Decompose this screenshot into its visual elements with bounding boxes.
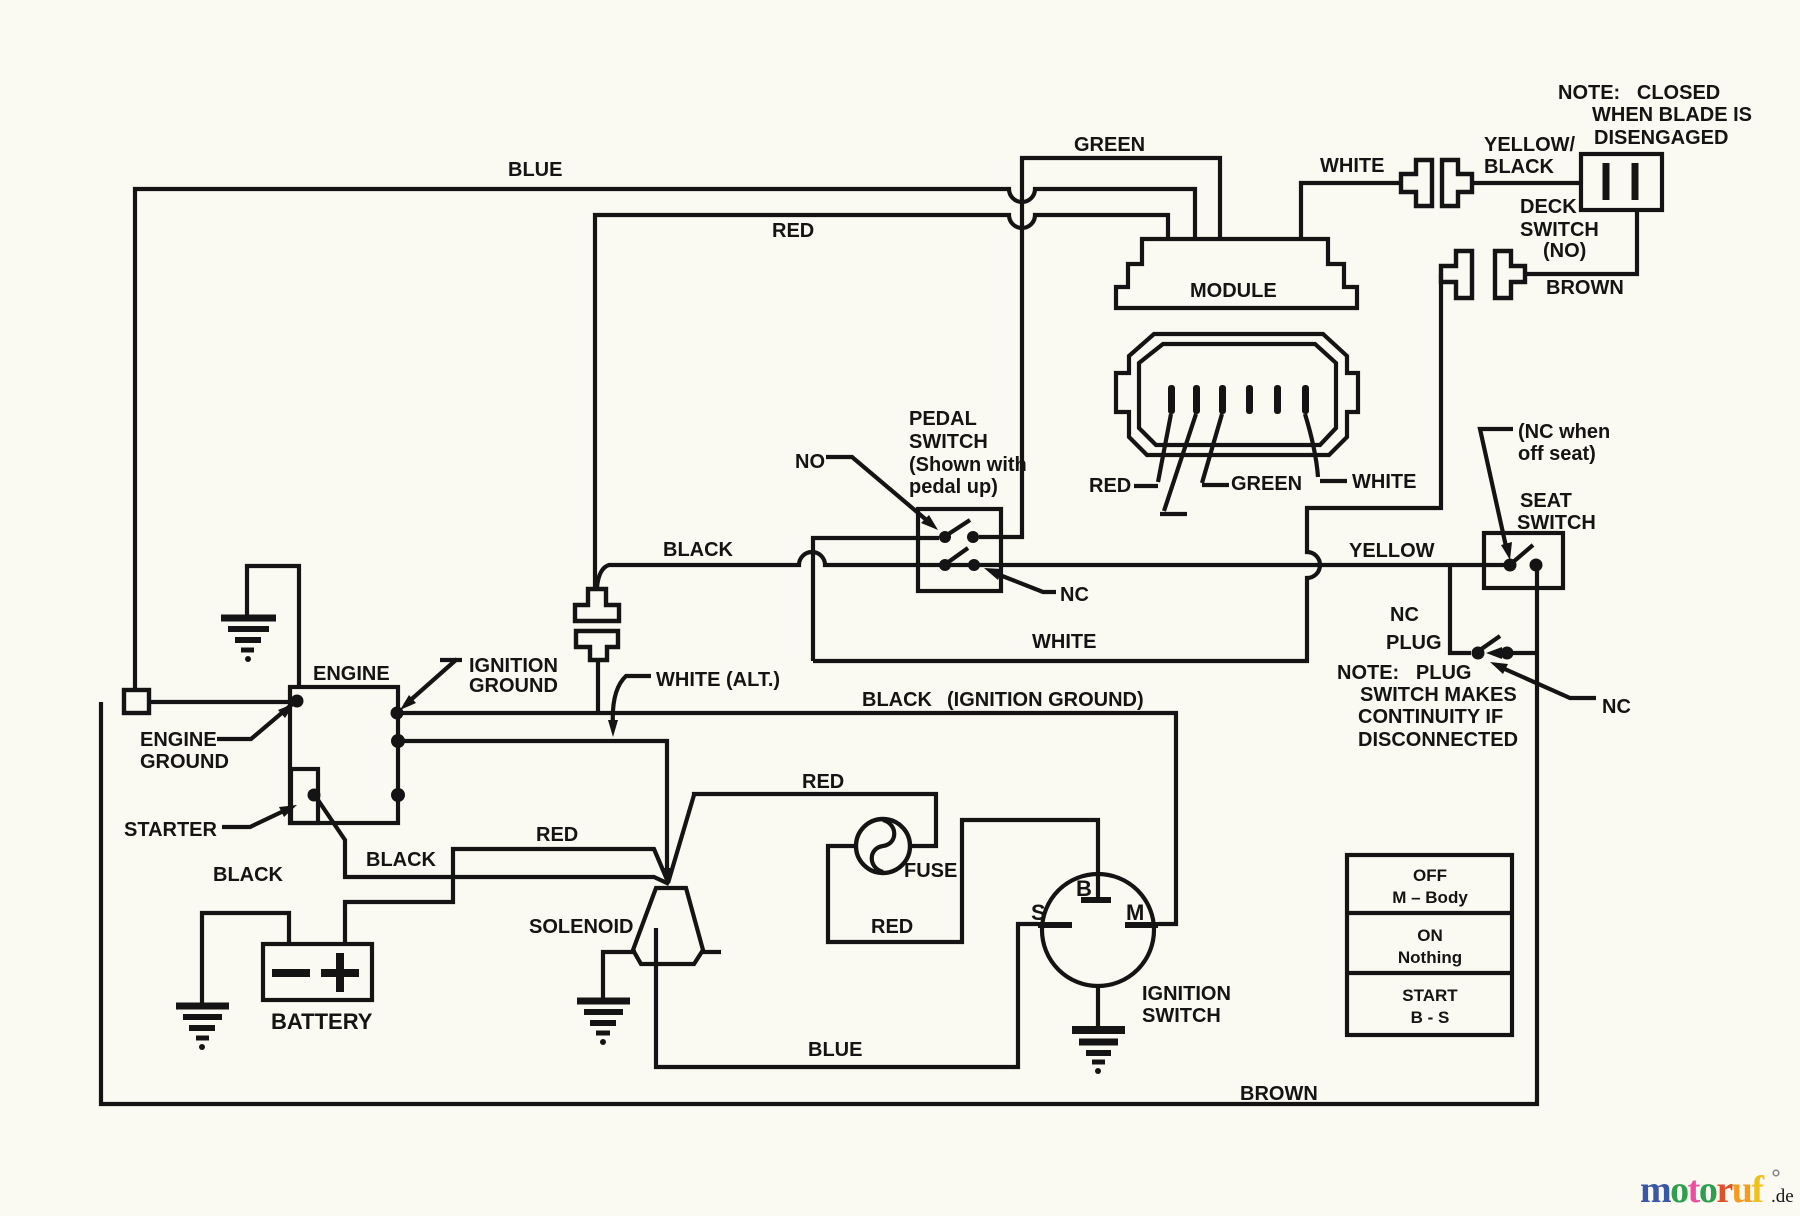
label STARTER with leader arrow <box>124 805 297 841</box>
svg-text:RED: RED <box>802 771 844 793</box>
svg-text:ENGINE: ENGINE <box>140 729 217 751</box>
wire ignition switch to ground <box>1096 986 1100 1026</box>
svg-text:SWITCH: SWITCH <box>1520 219 1599 241</box>
svg-text:WHEN BLADE IS: WHEN BLADE IS <box>1592 104 1752 126</box>
svg-text:.de: .de <box>1771 1186 1794 1207</box>
label WHITE (ALT.) with leader arrow <box>608 669 780 737</box>
svg-text:GROUND: GROUND <box>140 751 229 773</box>
solenoid left terminal to ground <box>603 952 636 998</box>
fuse F1 <box>856 819 910 873</box>
svg-text:YELLOW/: YELLOW/ <box>1484 134 1576 156</box>
svg-text:SOLENOID: SOLENOID <box>529 916 633 938</box>
svg-text:PEDAL: PEDAL <box>909 408 977 430</box>
svg-text:BLUE: BLUE <box>508 159 562 181</box>
wire NC plug branch (from yellow wire) <box>1450 565 1471 653</box>
connector plug (white harness side) <box>1441 251 1472 298</box>
battery BT1 <box>263 944 372 1000</box>
connector pins 1-6 <box>1168 385 1309 414</box>
label SEAT SWITCH <box>1517 490 1596 534</box>
wire WHITE ALT (engine alternator to solenoid) <box>398 741 667 880</box>
pedal switch S2 <box>918 509 1001 591</box>
svg-text:BATTERY: BATTERY <box>271 1009 373 1034</box>
seat switch contacts and arm <box>1504 545 1543 572</box>
svg-text:NOTE: PLUG: NOTE: PLUG <box>1337 662 1471 684</box>
label NOTE: PLUG SWITCH MAKES CONTINUITY IF DISCONNECTED <box>1337 662 1518 751</box>
label NOTE: CLOSED WHEN BLADE IS DISENGAGED <box>1558 82 1752 149</box>
engine block E1 <box>290 687 398 823</box>
svg-text:SWITCH: SWITCH <box>1142 1005 1221 1027</box>
wire WHITE (deck connector to pedal switch, hops yellow wire) <box>813 274 1441 661</box>
svg-text:SWITCH: SWITCH <box>909 431 988 453</box>
leader pin 2 (stub) <box>1160 414 1196 514</box>
svg-text:BLACK: BLACK <box>1484 156 1555 178</box>
wire BROWN (chassis loop: left border, bottom border, right border up to seat switch) <box>101 565 1537 1104</box>
connector plug (white wire side) <box>1401 160 1432 206</box>
svg-text:RED: RED <box>772 220 814 242</box>
svg-text:BLUE: BLUE <box>808 1039 862 1061</box>
svg-text:NC: NC <box>1060 584 1089 606</box>
ground (solenoid) <box>577 1001 630 1045</box>
svg-text:S: S <box>1031 900 1046 925</box>
connector plug (deck brown side) <box>1495 251 1525 298</box>
svg-text:SWITCH: SWITCH <box>1517 512 1596 534</box>
label NC (pedal) with leader arrow <box>984 568 1089 606</box>
wire BLACK (battery negative to chassis ground) <box>202 913 289 1003</box>
svg-text:RED: RED <box>536 824 578 846</box>
svg-text:pedal up): pedal up) <box>909 476 998 498</box>
ignition switch terminal M <box>1125 900 1158 925</box>
node starter terminal <box>308 789 321 802</box>
node ignition ground terminal <box>391 707 404 720</box>
svg-text:GREEN: GREEN <box>1074 134 1145 156</box>
wire BROWN (deck switch to connector) <box>1525 210 1637 274</box>
NC plug contacts, arm and mate arrow <box>1472 636 1514 660</box>
svg-text:RED: RED <box>871 916 913 938</box>
label (NC when off seat) with leader arrow <box>1480 421 1610 560</box>
ground (engine) <box>221 618 276 662</box>
svg-text:BLACK: BLACK <box>213 864 284 886</box>
wire YELLOW/BLACK (connector to deck switch) <box>1472 181 1581 185</box>
svg-text:(IGNITION GROUND): (IGNITION GROUND) <box>947 689 1144 711</box>
svg-text:WHITE: WHITE <box>1352 471 1416 493</box>
label NC PLUG <box>1386 604 1442 654</box>
svg-text:DECK: DECK <box>1520 196 1577 218</box>
wire BLUE (solenoid plunger to ignition switch S) <box>656 924 1038 1067</box>
wire inline connector to ignition ground wire <box>596 660 600 713</box>
svg-text:DISENGAGED: DISENGAGED <box>1594 127 1728 149</box>
deck switch S3 <box>1581 154 1662 210</box>
label IGNITION GROUND with leader arrow <box>400 655 558 710</box>
svg-text:PLUG: PLUG <box>1386 632 1442 654</box>
node starter feed terminal <box>391 788 405 802</box>
arrow into solenoid apex <box>662 868 674 886</box>
ignition switch position table <box>1347 855 1512 1035</box>
svg-text:MODULE: MODULE <box>1190 280 1277 302</box>
solenoid K1 <box>633 888 703 964</box>
svg-text:Nothing: Nothing <box>1398 948 1462 967</box>
connector plug (yellow/black wire side) <box>1442 160 1472 206</box>
svg-text:M – Body: M – Body <box>1392 888 1468 907</box>
svg-text:STARTER: STARTER <box>124 819 218 841</box>
wire BLACK IGNITION GROUND (engine to ignition switch M) <box>397 713 1176 924</box>
battery plus symbol <box>321 953 359 992</box>
wire WHITE (module to deck switch connector) <box>1301 183 1401 241</box>
inline connector upper half (to black/red wires) <box>575 589 619 621</box>
wire BLUE (engine-ground junction to module, hops pedal green wire at x=1022) <box>135 189 1195 691</box>
svg-text:B - S: B - S <box>1411 1008 1450 1027</box>
wire RED (battery positive to solenoid) <box>345 849 668 944</box>
label WHITE (pin 6) with leader <box>1305 414 1416 493</box>
node alternator terminal <box>391 734 405 748</box>
node engine ground terminal <box>291 695 304 708</box>
svg-text:WHITE: WHITE <box>1032 631 1096 653</box>
svg-text:(NO): (NO) <box>1543 240 1586 262</box>
wire engine ground (junction square to engine block) <box>149 700 292 704</box>
wire BLACK (starter to solenoid) <box>316 797 669 884</box>
svg-text:WHITE (ALT.): WHITE (ALT.) <box>656 669 780 691</box>
module connector J1 (outer shell) <box>1116 334 1358 455</box>
svg-text:START: START <box>1402 986 1458 1005</box>
svg-text:(NC when: (NC when <box>1518 421 1610 443</box>
label NC (plug) with leader arrow <box>1490 662 1631 718</box>
svg-text:SEAT: SEAT <box>1520 490 1572 512</box>
starter (sub-block inside engine) <box>291 769 318 823</box>
svg-text:NO: NO <box>795 451 825 473</box>
svg-text:BLACK: BLACK <box>366 849 437 871</box>
svg-text:SWITCH MAKES: SWITCH MAKES <box>1360 684 1517 706</box>
wire pedal NO feed (white wire riser to NO contact) <box>813 538 939 661</box>
label PEDAL SWITCH (Shown with pedal up) <box>909 408 1027 498</box>
label RED (pin 1) with leader <box>1089 414 1171 497</box>
svg-text:RED: RED <box>1089 475 1131 497</box>
wire RED (inline connector to module, hops green at x=1022) <box>595 215 1168 587</box>
svg-text:BLACK: BLACK <box>862 689 933 711</box>
pedal switch NO contacts and arm <box>939 520 979 543</box>
wire RED (fuse to ignition switch B) <box>828 820 1098 942</box>
svg-text:CONTINUITY IF: CONTINUITY IF <box>1358 706 1503 728</box>
ignition switch terminal B <box>1076 876 1111 901</box>
svg-text:BLACK: BLACK <box>663 539 734 561</box>
label ENGINE GROUND with leader arrow <box>140 703 295 773</box>
motoruf.de watermark logo <box>1640 1169 1794 1211</box>
label NO with leader arrow <box>795 451 938 530</box>
svg-text:IGNITION: IGNITION <box>1142 983 1231 1005</box>
svg-text:FUSE: FUSE <box>904 860 957 882</box>
seat switch S4 <box>1484 533 1563 588</box>
ignition switch S1 <box>1042 874 1154 986</box>
svg-text:(Shown with: (Shown with <box>909 454 1027 476</box>
svg-text:OFF: OFF <box>1413 866 1447 885</box>
svg-text:WHITE: WHITE <box>1320 155 1384 177</box>
svg-text:BROWN: BROWN <box>1546 277 1624 299</box>
label YELLOW/ BLACK <box>1484 134 1576 178</box>
svg-text:NC: NC <box>1390 604 1419 626</box>
svg-text:GROUND: GROUND <box>469 675 558 697</box>
svg-text:BROWN: BROWN <box>1240 1083 1318 1105</box>
wire BLACK (inline connector to pedal switch NC, hops white at x=812) <box>597 552 1504 587</box>
svg-text:YELLOW: YELLOW <box>1349 540 1435 562</box>
connector square (engine ground junction terminal) <box>124 690 149 713</box>
svg-text:ENGINE: ENGINE <box>313 663 390 685</box>
wire NC plug to brown loop <box>1513 651 1537 655</box>
wire GREEN (module to pedal switch NO) <box>979 158 1220 537</box>
svg-text:motoruf: motoruf <box>1640 1169 1765 1211</box>
pedal switch NC contacts and arm <box>939 548 980 571</box>
svg-text:DISCONNECTED: DISCONNECTED <box>1358 729 1518 751</box>
module connector J1 (inner shell) <box>1139 344 1336 445</box>
inline connector lower half (to ignition ground wire) <box>576 631 618 660</box>
svg-text:M: M <box>1126 900 1144 925</box>
svg-text:NC: NC <box>1602 696 1631 718</box>
label GREEN (pin 3) with leader <box>1202 414 1302 495</box>
svg-text:off seat): off seat) <box>1518 443 1596 465</box>
svg-text:IGNITION: IGNITION <box>469 655 558 677</box>
ground (ignition switch) <box>1072 1030 1125 1074</box>
svg-text:GREEN: GREEN <box>1231 473 1302 495</box>
solenoid right terminal stub <box>703 950 721 954</box>
wire engine block to chassis ground (arch) <box>247 566 299 689</box>
ignition switch terminal S <box>1031 900 1072 925</box>
module U1 <box>1116 239 1357 308</box>
svg-text:NOTE: CLOSED: NOTE: CLOSED <box>1558 82 1720 104</box>
battery minus symbol <box>272 969 310 977</box>
ground (battery negative) <box>176 1006 229 1050</box>
wire RED (solenoid to fuse) <box>668 794 936 883</box>
svg-text:ON: ON <box>1417 926 1443 945</box>
svg-text:B: B <box>1076 876 1092 901</box>
label DECK SWITCH (NO) <box>1520 196 1599 262</box>
